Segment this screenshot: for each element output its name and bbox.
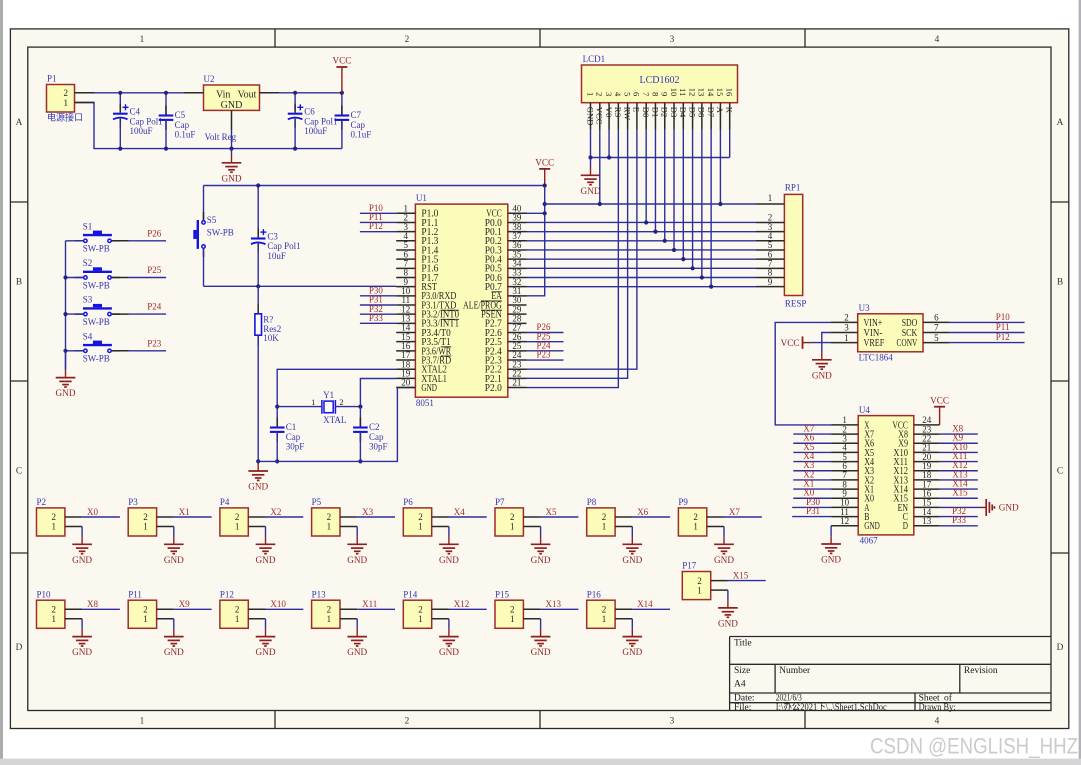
svg-text:2: 2 — [418, 605, 423, 615]
svg-text:21: 21 — [512, 378, 521, 388]
wire P16 pin1 to ground — [631, 619, 633, 629]
capacitor C6 — [294, 93, 296, 110]
U3 pin 7 SCK — [923, 332, 950, 334]
RP1 pin 3 — [756, 231, 784, 233]
U1 pin 31 EA — [508, 295, 527, 297]
svg-text:2: 2 — [339, 397, 343, 407]
U1 pin 2 P1.1 — [396, 221, 415, 223]
svg-text:D1: D1 — [650, 107, 660, 118]
svg-text:1: 1 — [602, 614, 607, 624]
power port VCC (U4) — [939, 407, 941, 425]
U1 pin 38 P0.1 — [508, 231, 527, 233]
svg-text:4067: 4067 — [860, 536, 879, 546]
wire net X8 — [82, 608, 120, 610]
svg-text:1: 1 — [693, 522, 698, 532]
U1 pin 30 ALE/PROG — [508, 304, 527, 306]
wire U3 VIN+ to U4 X — [775, 322, 831, 425]
svg-text:13: 13 — [922, 516, 932, 526]
svg-text:10uF: 10uF — [267, 251, 286, 261]
U1 pin 27 P2.6 — [508, 332, 527, 334]
wire GND bottom rail — [75, 103, 342, 149]
svg-text:A4: A4 — [734, 679, 746, 689]
U1 pin 19 XTAL1 — [396, 377, 415, 379]
U4 pin 19 X12 — [914, 470, 940, 472]
svg-text:S4: S4 — [83, 331, 93, 341]
svg-text:20: 20 — [401, 378, 411, 388]
U4 pin 24 VCC — [914, 424, 940, 426]
svg-text:1: 1 — [235, 614, 240, 624]
svg-text:8: 8 — [650, 92, 660, 96]
svg-text:VCC: VCC — [781, 338, 800, 348]
svg-text:CSDN @ENGLISH_HHZ: CSDN @ENGLISH_HHZ — [870, 734, 1078, 759]
U1 pin 35 P0.4 — [508, 258, 527, 260]
wire net X12 — [449, 608, 487, 610]
svg-text:2: 2 — [844, 313, 849, 323]
wire port P10 — [360, 212, 396, 214]
svg-text:GND: GND — [72, 647, 92, 657]
ground GND (P8) — [631, 537, 633, 545]
wire port P33 (U4 right) — [940, 525, 978, 527]
svg-text:GND: GND — [622, 555, 642, 565]
RP1 pin 2 — [756, 221, 784, 223]
svg-text:2: 2 — [327, 605, 332, 615]
U1 pin 13 P3.3/INT1 — [396, 322, 415, 324]
wire crystal rail — [277, 406, 360, 408]
svg-text:X5: X5 — [546, 507, 557, 517]
svg-text:100uF: 100uF — [304, 126, 327, 136]
svg-text:7: 7 — [641, 92, 651, 97]
wire LCD ground rail — [591, 130, 730, 158]
U4 pin 1 X — [831, 424, 858, 426]
svg-text:GND: GND — [585, 107, 595, 126]
svg-text:7: 7 — [934, 323, 939, 333]
svg-text:2: 2 — [697, 576, 702, 586]
svg-text:SW-PB: SW-PB — [83, 244, 110, 254]
wire port P32 — [360, 313, 396, 315]
ground GND (U4) — [830, 535, 832, 537]
svg-text:9: 9 — [660, 92, 670, 96]
svg-text:1: 1 — [510, 614, 515, 624]
svg-text:GND: GND — [439, 647, 459, 657]
connector P1 — [47, 85, 75, 113]
U4 pin 2 X7 — [831, 433, 858, 435]
svg-text:Size: Size — [734, 666, 750, 676]
ground GND (U3) — [821, 351, 823, 353]
U4 pin 16 X15 — [914, 497, 940, 499]
svg-text:1: 1 — [140, 717, 145, 727]
wire net X14 — [632, 608, 670, 610]
svg-text:GND: GND — [164, 647, 184, 657]
svg-text:X1: X1 — [179, 507, 190, 517]
svg-text:2: 2 — [405, 35, 410, 45]
wire S4 to port P23 — [112, 350, 129, 352]
RP1 pin 8 — [756, 276, 784, 278]
connector P7 — [495, 508, 523, 536]
svg-text:X14: X14 — [637, 599, 653, 609]
LCD1 pin 6 E — [636, 103, 638, 130]
svg-text:12: 12 — [687, 88, 697, 97]
wire port P11 — [360, 221, 396, 223]
ground GND (P14) — [448, 629, 450, 637]
svg-text:2: 2 — [64, 88, 69, 98]
svg-text:1: 1 — [52, 522, 57, 532]
connector P4 — [220, 508, 248, 536]
svg-text:GND: GND — [221, 100, 243, 111]
svg-text:3: 3 — [604, 92, 614, 96]
svg-text:2: 2 — [143, 512, 148, 522]
wire R? to ground rail — [257, 335, 259, 461]
U1 pin 12 P3.2/INT0 — [396, 313, 415, 315]
wire S5 to RST rail — [203, 249, 205, 286]
svg-text:GND: GND — [248, 482, 268, 492]
svg-text:X13: X13 — [546, 599, 562, 609]
IC LCD1 LCD1602 — [582, 65, 738, 103]
wire net X11 — [357, 608, 395, 610]
svg-text:B: B — [1057, 277, 1063, 287]
connector P16 — [587, 600, 615, 628]
svg-text:S5: S5 — [207, 215, 217, 225]
svg-text:Cap: Cap — [286, 432, 301, 442]
power port VCC (U1) — [544, 169, 546, 186]
svg-text:D4: D4 — [678, 107, 688, 118]
ground GND (P9) — [723, 537, 725, 545]
U1 pin 34 P0.5 — [508, 267, 527, 269]
connector P14 — [403, 600, 431, 628]
U1 pin 37 P0.2 — [508, 240, 527, 242]
wire VIN top rail — [75, 92, 342, 94]
svg-text:A: A — [715, 107, 725, 114]
svg-text:X2: X2 — [270, 507, 281, 517]
LCD1 pin 11 D4 — [682, 103, 684, 130]
wire P15 pin1 to ground — [540, 619, 542, 629]
wire net X10 (U4 right) — [940, 451, 978, 453]
svg-text:P8: P8 — [587, 497, 597, 507]
svg-text:10: 10 — [669, 88, 679, 97]
IC U3 LTC1864 — [858, 314, 923, 352]
wire net X3 — [357, 516, 395, 518]
svg-text:2: 2 — [602, 512, 607, 522]
ground GND (LCD) — [590, 158, 592, 168]
svg-text:2: 2 — [595, 92, 605, 96]
LCD1 pin 13 D6 — [701, 103, 703, 130]
capacitor C3 — [257, 186, 259, 236]
svg-text:100uF: 100uF — [130, 126, 153, 136]
svg-text:9: 9 — [768, 277, 773, 287]
wire U2 GND stem — [231, 130, 233, 149]
ground GND (U4 EN) — [981, 506, 986, 508]
ground GND (P16) — [631, 629, 633, 637]
svg-text:1: 1 — [418, 614, 423, 624]
svg-text:Cap: Cap — [351, 120, 366, 130]
svg-text:E: E — [632, 107, 642, 112]
ground GND (P17) — [727, 600, 729, 608]
power port VCC (regulator output) — [341, 67, 343, 93]
ground GND (P5) — [356, 537, 358, 545]
svg-text:GND: GND — [56, 388, 76, 398]
svg-text:3: 3 — [670, 717, 675, 727]
wire net X1 — [174, 516, 212, 518]
svg-text:Cap: Cap — [369, 432, 384, 442]
svg-text:D6: D6 — [697, 107, 707, 118]
wire port P30 (U4) — [792, 506, 831, 508]
wire S4 left — [66, 350, 84, 352]
U4 pin 20 X11 — [914, 461, 940, 463]
svg-text:GND: GND — [164, 555, 184, 565]
U4 pin 7 X2 — [831, 479, 858, 481]
svg-text:GND: GND — [72, 555, 92, 565]
svg-text:4: 4 — [613, 92, 623, 97]
svg-text:X3: X3 — [362, 507, 373, 517]
U4 pin 11 B — [831, 516, 858, 518]
svg-text:1: 1 — [327, 522, 332, 532]
svg-text:2: 2 — [510, 512, 515, 522]
wire net X6 — [632, 516, 670, 518]
wire port P33 — [360, 322, 396, 324]
svg-text:C3: C3 — [267, 231, 278, 241]
wire net X2 (U4) — [793, 479, 831, 481]
U1 pin 3 P1.2 — [396, 231, 415, 233]
svg-text:P1: P1 — [47, 73, 57, 83]
svg-text:GND: GND — [256, 555, 276, 565]
svg-text:S1: S1 — [83, 221, 93, 231]
IC U1 8051 — [415, 204, 507, 397]
ground GND (P7) — [540, 537, 542, 545]
svg-text:Cap Pol1: Cap Pol1 — [267, 241, 300, 251]
svg-text:12: 12 — [840, 516, 849, 526]
U4 pin 4 X5 — [831, 451, 858, 453]
wire XTAL1 net — [360, 379, 396, 407]
svg-text:P12: P12 — [369, 221, 383, 231]
wire P4 pin1 to ground — [265, 527, 267, 537]
connector P2 — [37, 508, 65, 536]
svg-text:P23: P23 — [147, 338, 162, 348]
wire net X13 (U4 right) — [940, 479, 978, 481]
wire port P31 (U4) — [792, 516, 831, 518]
wire P12 pin1 to ground — [265, 619, 267, 629]
wire port P23 — [527, 359, 564, 361]
wire P11 pin1 to ground — [173, 619, 175, 629]
svg-text:SW-PB: SW-PB — [83, 354, 110, 364]
svg-text:P11: P11 — [128, 589, 142, 599]
svg-text:C1: C1 — [286, 422, 297, 432]
svg-text:SW-PB: SW-PB — [207, 228, 234, 238]
RP1 pin 4 — [756, 240, 784, 242]
LCD1 pin 1 GND — [590, 103, 592, 130]
svg-text:V0: V0 — [604, 107, 614, 118]
wire net X2 — [266, 516, 304, 518]
U1 pin 32 P0.7 — [508, 286, 527, 288]
svg-text:VREF: VREF — [864, 338, 885, 349]
U4 pin 10 A — [831, 506, 858, 508]
U4 pin 23 X8 — [914, 433, 940, 435]
U1 pin 40 VCC — [508, 212, 527, 214]
svg-text:1: 1 — [52, 614, 57, 624]
wire P14 pin1 to ground — [448, 619, 450, 629]
svg-text:P12: P12 — [996, 332, 1010, 342]
svg-text:2: 2 — [327, 512, 332, 522]
wire net X7 — [724, 516, 762, 518]
svg-text:C: C — [16, 466, 22, 476]
switch S3 — [75, 313, 84, 315]
svg-text:U1: U1 — [416, 193, 427, 203]
ground GND (P6) — [448, 537, 450, 545]
connector P6 — [403, 508, 431, 536]
LCD1 pin 9 D2 — [664, 103, 666, 130]
svg-text:SW-PB: SW-PB — [83, 280, 110, 290]
svg-text:P25: P25 — [147, 265, 162, 275]
svg-text:1: 1 — [235, 522, 240, 532]
wire net X4 (U4) — [793, 461, 831, 463]
svg-text:2: 2 — [602, 605, 607, 615]
wire U1 pin40 VCC — [527, 212, 545, 214]
U3 pin 1 VREF — [830, 342, 857, 344]
U1 pin 33 P0.6 — [508, 276, 527, 278]
U4 pin 21 X10 — [914, 451, 940, 453]
svg-text:X7: X7 — [729, 507, 740, 517]
U4 pin 8 X1 — [831, 488, 858, 490]
wire net X0 (U4) — [793, 497, 831, 499]
wire net X12 (U4 right) — [940, 470, 978, 472]
wire P5 pin1 to ground — [356, 527, 358, 537]
svg-text:3: 3 — [844, 323, 849, 333]
svg-text:Cap Pol1: Cap Pol1 — [130, 116, 163, 126]
svg-text:2: 2 — [510, 605, 515, 615]
svg-text:P3: P3 — [128, 497, 138, 507]
svg-text:X4: X4 — [454, 507, 465, 517]
svg-text:D5: D5 — [687, 107, 697, 118]
wire net X14 (U4 right) — [940, 488, 978, 490]
U1 pin 9 RST — [396, 286, 415, 288]
svg-text:X15: X15 — [733, 570, 749, 580]
svg-text:1: 1 — [143, 522, 148, 532]
svg-text:D: D — [903, 521, 908, 532]
wire port P11 (U3) — [950, 332, 1025, 334]
U4 pin 13 D — [914, 525, 940, 527]
wire LCD VCC rail to RP1 — [545, 203, 756, 205]
wire S2 to port P25 — [112, 277, 129, 279]
wire net X1 (U4) — [793, 488, 831, 490]
svg-text:C5: C5 — [175, 110, 186, 120]
wire port P26 — [527, 332, 564, 334]
svg-text:A: A — [1057, 118, 1064, 128]
svg-text:GND: GND — [999, 503, 1019, 513]
svg-text:GND: GND — [347, 555, 367, 565]
svg-text:P24: P24 — [147, 302, 162, 312]
ground GND (power input) — [231, 149, 233, 155]
voltage regulator U2 — [204, 85, 260, 110]
svg-text:C6: C6 — [304, 107, 315, 117]
wire VCC stem — [527, 186, 545, 296]
wire S3 left — [66, 313, 84, 315]
svg-text:P2: P2 — [37, 497, 47, 507]
LCD1 pin 2 VCC — [599, 103, 601, 130]
svg-text:0.1uF: 0.1uF — [175, 130, 196, 140]
wire net X13 — [541, 608, 579, 610]
RP1 pin 6 — [756, 258, 784, 260]
ground GND (crystal) — [257, 461, 259, 463]
svg-text:P6: P6 — [403, 497, 413, 507]
svg-text:RW: RW — [622, 107, 632, 121]
wire P13 pin1 to ground — [356, 619, 358, 629]
svg-text:1: 1 — [64, 98, 69, 108]
svg-text:1: 1 — [585, 92, 595, 96]
svg-text:6: 6 — [632, 92, 642, 97]
svg-text:P33: P33 — [952, 515, 967, 525]
svg-text:2: 2 — [418, 512, 423, 522]
U1 pin 25 P2.4 — [508, 350, 527, 352]
svg-text:LTC1864: LTC1864 — [859, 353, 894, 363]
svg-text:Number: Number — [779, 666, 811, 676]
svg-text:VCC: VCC — [332, 56, 351, 66]
LCD1 pin 8 D1 — [654, 103, 656, 130]
svg-text:GND: GND — [622, 647, 642, 657]
wire P2 pin1 to ground — [81, 527, 83, 537]
U1 pin 8 P1.7 — [396, 276, 415, 278]
U1 pin 14 P3.4/T0 — [396, 332, 415, 334]
svg-text:13: 13 — [697, 88, 707, 97]
ground GND (P10) — [81, 629, 83, 637]
svg-text:U4: U4 — [859, 405, 870, 415]
svg-text:I:\办公2021下\..\Sheet1.SchDoc: I:\办公2021下\..\Sheet1.SchDoc — [776, 701, 887, 713]
svg-text:16: 16 — [725, 88, 735, 97]
ground GND (P12) — [265, 629, 267, 637]
U1 pin 24 P2.3 — [508, 359, 527, 361]
svg-text:VCC: VCC — [535, 158, 554, 168]
svg-text:P17: P17 — [682, 561, 697, 571]
U1 pin 15 P3.5/T1 — [396, 341, 415, 343]
wire net X10 — [266, 608, 304, 610]
svg-text:GND: GND — [347, 647, 367, 657]
U1 pin 4 P1.3 — [396, 240, 415, 242]
U4 pin 6 X3 — [831, 470, 858, 472]
wire U4 EN to ground — [940, 506, 982, 508]
svg-text:1: 1 — [697, 585, 702, 595]
svg-text:P9: P9 — [678, 497, 688, 507]
wire P17 pin1 to ground — [727, 590, 729, 600]
U4 pin 9 X0 — [831, 497, 858, 499]
wire port P25 — [527, 341, 564, 343]
wire S2 left — [66, 277, 84, 279]
RP1 pin 1 — [756, 203, 784, 205]
svg-text:GND: GND — [222, 173, 242, 183]
svg-text:GND: GND — [439, 555, 459, 565]
svg-text:1: 1 — [418, 522, 423, 532]
wire net X3 (U4) — [793, 470, 831, 472]
connector P12 — [220, 600, 248, 628]
svg-text:P12: P12 — [220, 589, 234, 599]
svg-text:C: C — [1057, 466, 1063, 476]
switch S5 — [203, 212, 205, 221]
resistor R? — [257, 286, 259, 305]
svg-text:2: 2 — [52, 512, 57, 522]
svg-text:P4: P4 — [220, 497, 230, 507]
LCD1 pin 12 D5 — [692, 103, 694, 130]
wire net X7 (U4) — [793, 433, 831, 435]
capacitor C5 — [165, 93, 167, 116]
svg-text:GND: GND — [581, 186, 601, 196]
svg-text:X8: X8 — [87, 599, 98, 609]
U1 pin 22 P2.1 — [508, 377, 527, 379]
svg-text:15: 15 — [715, 88, 725, 97]
svg-text:1: 1 — [143, 614, 148, 624]
svg-text:D2: D2 — [660, 107, 670, 118]
svg-text:GND: GND — [821, 555, 841, 565]
title block — [730, 636, 1051, 638]
wire S1 left — [66, 240, 84, 242]
capacitor C7 — [341, 93, 343, 116]
svg-text:Cap Pol1: Cap Pol1 — [304, 116, 337, 126]
wire port P31 — [360, 304, 396, 306]
